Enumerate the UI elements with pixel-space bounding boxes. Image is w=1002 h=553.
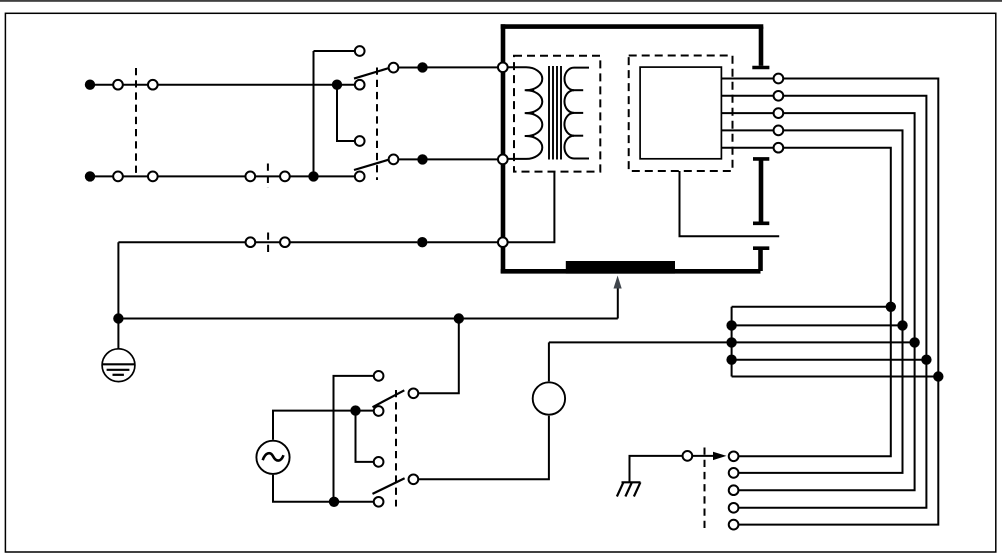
- patient lead 3 terminal circle: [774, 108, 784, 118]
- junction dot: [726, 337, 736, 347]
- wire: [314, 50, 355, 52]
- primary winding tick: [525, 89, 535, 91]
- switch S4 output contact: [409, 474, 419, 484]
- wire to S4 upper throw: [356, 411, 374, 462]
- junction dot: [454, 313, 464, 323]
- terminal circle: [245, 172, 255, 182]
- enclosure top wall: [501, 24, 764, 29]
- AC sine symbol: [263, 453, 284, 460]
- measuring circuit inner box: [640, 67, 721, 159]
- wire patient lead 2 from box: [721, 95, 773, 97]
- switch S4 upper throw contact: [374, 457, 384, 467]
- patient lead 5 terminal circle: [774, 143, 784, 153]
- connector circle 1: [729, 451, 739, 461]
- junction dot: [886, 302, 896, 312]
- probe arrow shaft: [693, 455, 714, 457]
- switch S1 upper throw contact: [355, 46, 365, 56]
- junction dot: [308, 171, 318, 181]
- wire cross-link down to row 2: [313, 51, 315, 176]
- wire: [123, 175, 147, 177]
- patient lead 4 terminal circle: [774, 126, 784, 136]
- junction dot: [417, 154, 427, 164]
- chassis ground symbol: [622, 481, 641, 483]
- switch S2 upper throw contact: [355, 136, 365, 146]
- patient lead 2 terminal circle: [774, 91, 784, 101]
- measuring circuit dashed box: [629, 56, 733, 172]
- junction dot: [332, 80, 342, 90]
- bus wire 2: [732, 324, 903, 326]
- connector dashed mark B2: [267, 233, 269, 255]
- wire patient lead 3 from box: [721, 112, 773, 114]
- switch S1 pole contact: [355, 80, 365, 90]
- wire S3 output riser: [419, 319, 459, 394]
- enclosure plate: [753, 157, 769, 161]
- probe arrowhead: [713, 452, 727, 460]
- wire patient lead 4 loop: [739, 130, 903, 473]
- junction dot: [113, 313, 123, 323]
- wire cross-link down to S2 throw: [337, 85, 354, 141]
- transformer dashed box: [514, 56, 600, 172]
- wire to enclosure terminal L1: [428, 66, 501, 68]
- bus wire 4: [732, 359, 927, 361]
- junction dot: [417, 62, 427, 72]
- enclosure plate: [753, 222, 769, 226]
- connector dashed mark B1: [267, 164, 269, 189]
- wire patient lead 1 loop: [739, 79, 938, 525]
- terminal circle: [113, 172, 123, 182]
- enclosure bottom wall: [501, 269, 761, 274]
- measuring device MD: [533, 382, 565, 414]
- enclosure right stub bottom: [758, 248, 763, 271]
- enclosure terminal L1: [498, 62, 508, 72]
- wire PE: [118, 241, 245, 243]
- probe terminal circle: [683, 451, 693, 461]
- connector circle 4: [729, 503, 739, 513]
- protective earth symbol: [102, 349, 135, 382]
- terminal circle: [280, 172, 290, 182]
- bus wire 5: [732, 376, 939, 378]
- probe wire to enclosure plate: [617, 288, 619, 319]
- switch S4 blade: [373, 478, 405, 494]
- switch S1 blade: [354, 68, 389, 79]
- earth bar 1: [103, 363, 134, 365]
- connector circle 2: [729, 468, 739, 478]
- switch S3 output contact: [409, 388, 419, 398]
- switch S4 pole contact: [374, 497, 384, 507]
- wire cross-link to S3 upper throw: [334, 376, 374, 502]
- terminal circle: [148, 80, 158, 90]
- switch S3 blade: [373, 390, 405, 407]
- wire patient lead 5 loop: [739, 148, 891, 457]
- transformer core: [549, 66, 561, 160]
- secondary winding tick: [573, 89, 584, 91]
- switch S2 blade: [354, 160, 389, 170]
- wire transformer shield to PE: [508, 172, 554, 243]
- patient lead 1 terminal circle: [774, 74, 784, 84]
- wire patient lead 2 loop: [739, 96, 927, 508]
- enclosure right stub middle: [759, 159, 764, 223]
- wire: [95, 175, 113, 177]
- wire: [290, 241, 417, 243]
- wire PE riser: [117, 242, 119, 318]
- wire to enclosure terminal PE: [427, 241, 500, 243]
- wire MD bottom: [419, 416, 549, 480]
- enclosure terminal PE: [498, 237, 508, 247]
- wire patient lead 3 loop: [739, 113, 915, 490]
- wire MD top: [548, 342, 550, 381]
- switch S1 output contact: [389, 63, 399, 73]
- junction dot: [909, 337, 919, 347]
- wire: [95, 84, 113, 86]
- node L2 supply dot: [85, 171, 95, 181]
- transformer secondary winding: [564, 68, 589, 159]
- enclosure plate: [752, 66, 769, 70]
- wire: [256, 175, 280, 177]
- node L1 supply dot: [85, 80, 95, 90]
- terminal circle: [280, 237, 290, 247]
- junction dot: [897, 320, 907, 330]
- transformer primary winding: [508, 67, 542, 159]
- barrier dashed line F: [704, 448, 706, 531]
- wire from chassis ground: [630, 456, 683, 482]
- junction dot: [921, 355, 931, 365]
- wire AC top: [273, 411, 373, 440]
- primary winding tick: [525, 112, 535, 114]
- barrier dashed line A: [135, 68, 137, 174]
- connector circle 5: [729, 520, 739, 530]
- bus wire 3 to measuring device: [549, 341, 915, 343]
- wire patient lead 5 from box: [721, 147, 773, 149]
- junction dot: [726, 355, 736, 365]
- terminal circle: [246, 237, 256, 247]
- secondary winding tick: [573, 135, 584, 137]
- bus left vertical: [731, 307, 733, 377]
- wire: [399, 158, 418, 160]
- conductive plate on enclosure: [566, 261, 675, 274]
- enclosure left wall: [501, 24, 506, 273]
- terminal circle: [113, 80, 123, 90]
- wire L2: [158, 175, 247, 177]
- probe arrowhead: [614, 276, 622, 289]
- wire patient lead 4 from box: [721, 129, 773, 131]
- wire earth bus: [118, 318, 617, 320]
- wire to enclosure terminal L2: [428, 158, 501, 160]
- wire to protective earth symbol: [117, 319, 119, 365]
- wire patient lead 1 from box: [721, 78, 773, 80]
- wire: [256, 241, 280, 243]
- terminal circle: [148, 172, 158, 182]
- junction dot: [350, 405, 360, 415]
- switch S2 output contact: [389, 155, 399, 165]
- wire measuring box to accessible part: [680, 171, 780, 236]
- wire: [123, 84, 147, 86]
- switch S3 upper throw contact: [374, 371, 384, 381]
- wire L1: [158, 84, 354, 86]
- bus wire 1: [732, 306, 891, 308]
- wire: [290, 175, 354, 177]
- switch S3 pole contact: [374, 406, 384, 416]
- junction dot: [933, 371, 943, 381]
- barrier dashed line C: [376, 68, 378, 181]
- switch S2 pole contact: [355, 172, 365, 182]
- AC source circle: [256, 441, 289, 474]
- wire: [399, 67, 418, 69]
- barrier dashed line E: [395, 390, 397, 507]
- wire AC bottom: [273, 475, 373, 502]
- enclosure terminal L2: [498, 155, 508, 165]
- connector circle 3: [729, 485, 739, 495]
- earth bar 3: [113, 374, 124, 376]
- junction dot: [329, 497, 339, 507]
- secondary winding tick: [573, 112, 584, 114]
- junction dot: [726, 320, 736, 330]
- junction dot: [417, 237, 427, 247]
- enclosure plate: [753, 246, 769, 250]
- earth bar 2: [107, 369, 130, 371]
- primary winding tick: [525, 135, 535, 137]
- enclosure right stub top: [759, 27, 764, 66]
